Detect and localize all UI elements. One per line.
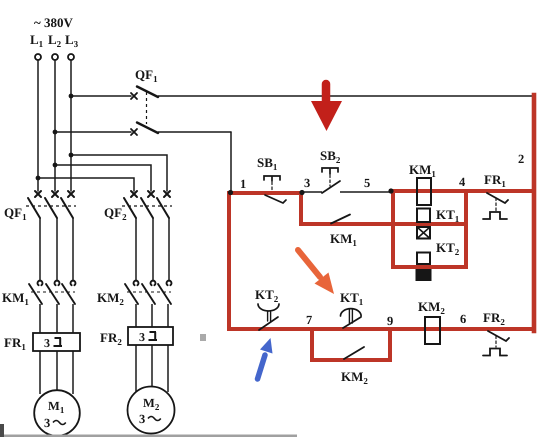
pushbutton SB1 [264, 176, 286, 203]
linkage KM1 (dashed) [31, 291, 75, 293]
label L3 [65, 32, 79, 49]
svg-text:4: 4 [459, 175, 466, 189]
wire red KM2 latch branch [312, 329, 390, 360]
arrow blue [258, 338, 273, 379]
label 6 [460, 312, 466, 326]
wire QF1a-KM1a [39, 218, 41, 280]
wire L2 branch to QF2 pole b [55, 165, 151, 191]
wire node3-SB2 [303, 191, 322, 193]
pushbutton SB2 [322, 168, 340, 193]
wire red rung1 (KM1 coil row) [391, 189, 534, 193]
junction L1/QF2 [36, 176, 41, 181]
wire red ladder right vertical [464, 191, 468, 267]
wire red ladder left vertical [391, 191, 395, 267]
wire QF2b-KM2b [152, 218, 154, 280]
label 5 [364, 176, 370, 190]
relay FR1 heater box [33, 333, 80, 351]
coil KT1 (delay) [417, 209, 430, 239]
relay contact FR1 [483, 193, 508, 219]
value 3-heater in FR2 [139, 330, 157, 344]
svg-text:KT1: KT1 [436, 207, 460, 224]
label QF2 [104, 205, 127, 222]
scan artifact left smudge [200, 334, 206, 341]
linkage KM2 (dashed) [127, 291, 171, 293]
svg-text:SB1: SB1 [257, 155, 278, 172]
label KM2 (coil) [418, 299, 445, 316]
label QF1 (main) [4, 205, 27, 222]
wire QF2a-KM2a [135, 218, 137, 280]
svg-text:QF1: QF1 [4, 205, 27, 222]
svg-text:7: 7 [306, 313, 312, 327]
label FR2 (contact) [483, 310, 505, 327]
wire KM1b-M1 [56, 304, 58, 390]
wire QF2c-KM2c [168, 218, 170, 280]
wire L2 vertical [54, 60, 56, 191]
wire red right vertical (node 2) [532, 95, 537, 331]
wire red rung3 (KT2 row) [393, 265, 466, 269]
breaker QF1 main [28, 191, 74, 218]
svg-text:6: 6 [460, 312, 466, 326]
relay contact FR2 [483, 331, 509, 356]
value 3-heater in FR1 [44, 336, 62, 350]
label KT2 (contact) [255, 287, 279, 304]
label 2 [518, 152, 524, 166]
motor M1 [34, 390, 80, 436]
label 4 [459, 175, 466, 189]
junction L3/control-a [69, 94, 74, 99]
contact KT1 (delayed) [341, 309, 362, 328]
svg-text:2: 2 [518, 152, 524, 166]
svg-text:KM1: KM1 [330, 231, 357, 248]
arrow red (press SB2) [311, 84, 342, 131]
label KM2 (main) [97, 290, 124, 307]
linkage QF1 main (dashed) [26, 205, 76, 207]
wire L3 branch to QF2 pole c [71, 155, 167, 191]
wire KM2c-M2 [167, 304, 169, 392]
svg-text:KT2: KT2 [255, 287, 279, 304]
node 3 junction [299, 190, 304, 195]
label KT1 (coil) [436, 207, 460, 224]
svg-text:KT1: KT1 [340, 290, 364, 307]
label L2 [48, 32, 62, 49]
label 3 [304, 176, 310, 190]
label ~380V [34, 15, 74, 30]
contactor KM2 main contacts [125, 281, 171, 304]
wire down to node 1 [230, 132, 232, 192]
label L1 [30, 32, 44, 49]
scan artifact bottom bar [0, 435, 297, 437]
relay FR2 heater box [128, 327, 173, 345]
label KT1 (contact) [340, 290, 364, 307]
wire KM2a-M2 [135, 304, 137, 392]
wire KM1a-M1 [39, 304, 41, 394]
svg-text:3: 3 [139, 330, 145, 344]
svg-text:KM1: KM1 [2, 290, 29, 307]
svg-text:FR2: FR2 [483, 310, 505, 327]
label 1 [240, 177, 246, 191]
contact KM2 aux [344, 347, 364, 359]
wire QF1b-KM1b [56, 218, 58, 280]
wire red left vertical (node 1 down) [227, 193, 231, 329]
wire QF1 control pole a output to node 2 [158, 95, 534, 97]
label FR1 [4, 335, 26, 352]
svg-text:3: 3 [44, 416, 50, 430]
motor M2 [128, 387, 175, 434]
wire SB2-node5 [340, 191, 391, 193]
junction L3/QF2 [69, 153, 74, 158]
terminal L1 [35, 54, 41, 60]
wire red top row node1-node3 [229, 191, 301, 195]
node 5 junction [388, 188, 393, 193]
wire QF1 control pole b output [158, 131, 231, 133]
terminal L3 [68, 54, 74, 60]
svg-text:QF1: QF1 [135, 67, 158, 84]
svg-text:KM2: KM2 [418, 299, 445, 316]
contactor KM1 main contacts [29, 281, 76, 304]
wire L1 vertical [37, 60, 39, 191]
label FR1 (contact) [484, 172, 506, 189]
svg-text:SB2: SB2 [320, 148, 341, 165]
label QF1 (control) [135, 67, 158, 84]
arrow orange [298, 250, 334, 294]
svg-text:9: 9 [387, 314, 393, 328]
label SB2 [320, 148, 341, 165]
scan artifact corner [0, 424, 4, 437]
contact KT2 (delayed) [258, 304, 279, 330]
label KT2 (coil) [436, 240, 460, 257]
label KM1 (aux) [330, 231, 357, 248]
label 7 [306, 313, 312, 327]
label KM2 (aux) [341, 369, 368, 386]
wire KM1c-M1 [72, 304, 74, 394]
label 9 [387, 314, 393, 328]
svg-text:L2: L2 [48, 32, 62, 49]
breaker QF1 control poles [131, 87, 158, 136]
svg-text:1: 1 [240, 177, 246, 191]
svg-text:KT2: KT2 [436, 240, 460, 257]
svg-text:KM1: KM1 [409, 162, 436, 179]
label FR2 [100, 330, 122, 347]
svg-text:3: 3 [304, 176, 310, 190]
coil KT2 (delay) [416, 253, 431, 281]
svg-text:L1: L1 [30, 32, 44, 49]
junction L2/control-b [53, 130, 58, 135]
wire QF1c-KM1c [72, 218, 74, 280]
wire red rung2 (KM1 latch row) [301, 222, 466, 226]
svg-text:L3: L3 [65, 32, 79, 49]
wire red node3 down [299, 193, 303, 224]
label KM1 (main) [2, 290, 29, 307]
terminal L2 [52, 54, 58, 60]
svg-text:QF2: QF2 [104, 205, 127, 222]
label SB1 [257, 155, 278, 172]
svg-text:FR1: FR1 [484, 172, 506, 189]
contact KM1 aux (self latch) [331, 215, 350, 224]
svg-text:KM2: KM2 [341, 369, 368, 386]
svg-text:~ 380V: ~ 380V [34, 15, 74, 30]
breaker QF2 main [124, 191, 170, 218]
wire KM2b-M2 [151, 304, 153, 387]
node 1 junction [228, 190, 233, 195]
coil KM2 [425, 317, 440, 344]
coil KM1 [417, 178, 431, 205]
svg-text:3: 3 [139, 412, 145, 426]
label KM1 (coil) [409, 162, 436, 179]
svg-text:5: 5 [364, 176, 370, 190]
linkage QF1 control (dashed) [146, 92, 148, 124]
wire L1 branch to QF2 pole a [38, 178, 134, 191]
wire L2 to QF1 control pole b [55, 131, 131, 133]
linkage QF2 main (dashed) [122, 205, 172, 207]
svg-text:3: 3 [44, 336, 50, 350]
svg-text:KM2: KM2 [97, 290, 124, 307]
svg-text:FR2: FR2 [100, 330, 122, 347]
wire red bottom row [229, 327, 534, 331]
junction L2/QF2 [53, 163, 58, 168]
wire L3 to QF1 control pole a [71, 95, 131, 97]
wire L3 vertical [70, 60, 72, 191]
svg-text:FR1: FR1 [4, 335, 26, 352]
